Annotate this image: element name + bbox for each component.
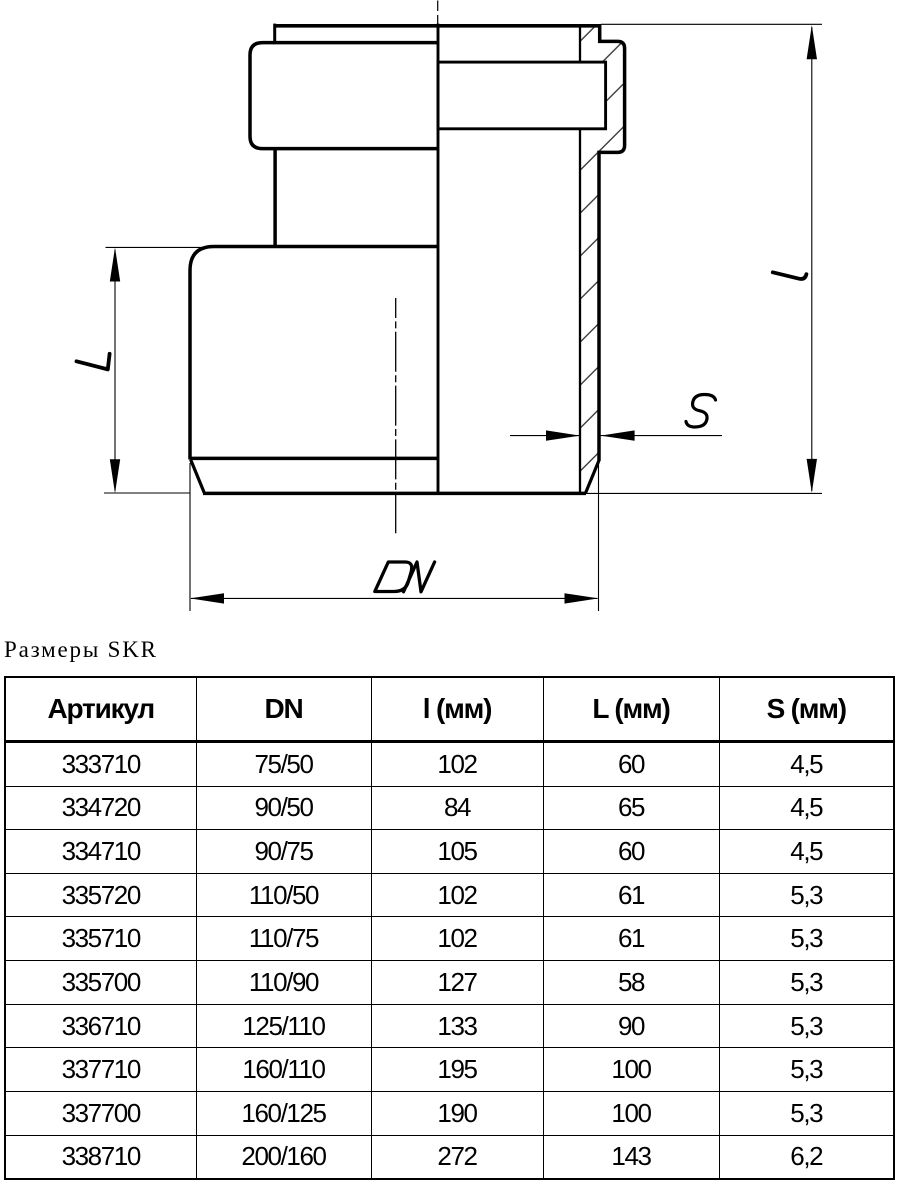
- label S: [686, 395, 716, 428]
- pipe outer edge below collar: [273, 149, 277, 247]
- wall outer profile with seal bulge: [599, 25, 625, 461]
- L arrow up: [110, 248, 120, 282]
- centerline bottom: [395, 298, 397, 536]
- left chamfer: [191, 460, 205, 493]
- section divider line: [437, 24, 440, 494]
- technical drawing of SKR reducer: [0, 0, 900, 632]
- DN extension left: [189, 463, 191, 611]
- label l: [773, 272, 807, 279]
- label DN : N: [404, 562, 435, 592]
- seal groove cavity (white rectangle): [438, 62, 606, 129]
- S arrow right-pointing: [546, 430, 580, 440]
- L arrow down: [110, 459, 120, 493]
- socket body top and left edge: [190, 247, 438, 460]
- l dimension line: [811, 27, 813, 491]
- top edge: [274, 24, 601, 28]
- DN extension right: [598, 463, 600, 611]
- table title: [4, 637, 158, 663]
- l arrow up: [807, 25, 817, 59]
- l dimension extension top: [601, 23, 822, 25]
- socket end line: [190, 457, 438, 461]
- label DN : D: [375, 562, 412, 592]
- centerline top: [437, 1, 439, 26]
- hatched pipe wall cross-section: [580, 25, 625, 493]
- DN dimension line: [191, 597, 598, 599]
- L dimension line: [114, 250, 116, 491]
- S dimension line right: [601, 435, 722, 437]
- bottom edge: [203, 492, 586, 496]
- right chamfer: [585, 460, 599, 493]
- top step vertical: [273, 24, 276, 45]
- L dimension extension top: [106, 246, 214, 248]
- S arrow left-pointing: [601, 430, 635, 440]
- DN arrow right: [565, 593, 599, 603]
- bottom extension line right: [586, 492, 822, 494]
- collar (rounded): [250, 43, 438, 149]
- label L: [77, 354, 110, 370]
- wall inner surface line: [579, 25, 581, 493]
- bottom extension line left: [104, 492, 190, 494]
- dimensions table: [4, 676, 895, 1180]
- l arrow down: [807, 459, 817, 493]
- S dimension line left: [510, 435, 580, 437]
- DN arrow left: [190, 593, 224, 603]
